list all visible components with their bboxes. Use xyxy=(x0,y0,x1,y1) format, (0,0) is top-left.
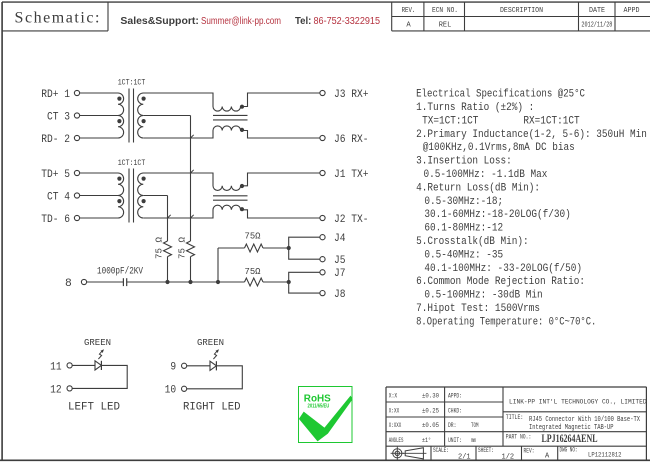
svg-text:9: 9 xyxy=(170,362,176,374)
svg-text:RD+ 1: RD+ 1 xyxy=(41,89,70,101)
svg-text:REV.: REV. xyxy=(402,7,416,15)
svg-text:2011/65/EU: 2011/65/EU xyxy=(308,403,330,409)
svg-text:11: 11 xyxy=(50,361,62,373)
svg-text:Tel:: Tel: xyxy=(295,16,311,27)
svg-text:J8: J8 xyxy=(334,289,346,301)
svg-text:75Ω: 75Ω xyxy=(245,266,261,277)
svg-text:RIGHT LED: RIGHT LED xyxy=(183,402,241,414)
svg-text:CT 4: CT 4 xyxy=(47,191,70,203)
svg-text:10: 10 xyxy=(165,385,177,397)
svg-text:7.Hipot Test: 1500Vrms: 7.Hipot Test: 1500Vrms xyxy=(416,303,540,315)
svg-text:mm: mm xyxy=(471,437,476,444)
svg-text:LINK-PP INT'L TECHNOLOGY CO.,: LINK-PP INT'L TECHNOLOGY CO., LIMITED xyxy=(509,399,647,406)
svg-text:1000pF/2KV: 1000pF/2KV xyxy=(97,265,144,277)
svg-text:12: 12 xyxy=(50,384,62,396)
svg-text:TITLE:: TITLE: xyxy=(506,414,524,421)
svg-text:5.Crosstalk(dB Min):: 5.Crosstalk(dB Min): xyxy=(416,236,529,248)
svg-text:60.1-80MHz:-12: 60.1-80MHz:-12 xyxy=(424,223,503,235)
svg-text:DR:: DR: xyxy=(448,422,456,429)
svg-text:3.Insertion Loss:: 3.Insertion Loss: xyxy=(416,156,512,168)
svg-text:4.Return Loss(dB Min):: 4.Return Loss(dB Min): xyxy=(416,182,540,194)
svg-text:SCALE:: SCALE: xyxy=(433,447,449,454)
svg-text:Schematic:: Schematic: xyxy=(15,10,100,27)
svg-text:2/1: 2/1 xyxy=(458,454,471,462)
svg-text:J3 RX+: J3 RX+ xyxy=(334,89,369,101)
svg-text:A: A xyxy=(406,22,411,30)
svg-text:J6 RX-: J6 RX- xyxy=(334,134,369,146)
svg-text:APPD: APPD xyxy=(624,7,640,15)
svg-text:DATE: DATE xyxy=(589,7,605,15)
svg-text:±0.05: ±0.05 xyxy=(422,422,439,429)
svg-text:DESCRIPTION: DESCRIPTION xyxy=(500,7,543,15)
svg-text:75 Ω: 75 Ω xyxy=(154,237,165,259)
svg-text:±0.25: ±0.25 xyxy=(422,407,439,414)
svg-text:6.Common Mode Rejection Ratio:: 6.Common Mode Rejection Ratio: xyxy=(416,276,585,288)
svg-text:J4: J4 xyxy=(334,233,346,245)
svg-text:X:XXX: X:XXX xyxy=(389,422,402,429)
svg-text:J7: J7 xyxy=(334,268,346,280)
svg-text:Summer@link-pp.com: Summer@link-pp.com xyxy=(201,16,281,27)
svg-text:Sales&Support:: Sales&Support: xyxy=(120,16,198,27)
svg-text:CHKD:: CHKD: xyxy=(448,407,462,414)
svg-text:J5: J5 xyxy=(334,255,346,267)
svg-text:ANGLES: ANGLES xyxy=(389,437,404,444)
svg-text:1CT:1CT: 1CT:1CT xyxy=(118,158,146,168)
svg-text:Electrical Specifications @25°: Electrical Specifications @25°C xyxy=(416,89,585,101)
svg-text:RJ45 Connector With 10/100 Bas: RJ45 Connector With 10/100 Base-TX xyxy=(529,416,640,424)
svg-text:1.Turns Ratio (±2%) :: 1.Turns Ratio (±2%) : xyxy=(416,102,534,114)
svg-text:1/2: 1/2 xyxy=(502,454,515,462)
svg-text:SHEET:: SHEET: xyxy=(478,447,494,454)
svg-text:1CT:1CT: 1CT:1CT xyxy=(118,77,146,87)
svg-text:ECN NO.: ECN NO. xyxy=(432,7,458,15)
svg-text:±1°: ±1° xyxy=(422,436,431,444)
svg-text:REV:: REV: xyxy=(524,448,535,455)
svg-text:75Ω: 75Ω xyxy=(245,231,261,242)
svg-text:±0.30: ±0.30 xyxy=(422,392,439,399)
svg-text:8.Operating Temperature: 0°C~7: 8.Operating Temperature: 0°C~70°C. xyxy=(416,316,596,328)
svg-text:30.1-60MHz:-18-20LOG(f/30): 30.1-60MHz:-18-20LOG(f/30) xyxy=(424,209,570,221)
svg-text:REL: REL xyxy=(439,22,452,30)
svg-text:LPJ16264AENL: LPJ16264AENL xyxy=(542,431,598,445)
svg-text:86-752-3322915: 86-752-3322915 xyxy=(314,16,381,27)
svg-text:X:XX: X:XX xyxy=(389,407,399,414)
svg-text:GREEN: GREEN xyxy=(197,338,224,348)
svg-text:TD+ 5: TD+ 5 xyxy=(41,169,70,181)
svg-text:2.Primary Inductance(1-2, 5-6): 2.Primary Inductance(1-2, 5-6): 350uH Mi… xyxy=(416,129,647,141)
svg-text:@100KHz,0.1Vrms,8mA DC bias: @100KHz,0.1Vrms,8mA DC bias xyxy=(423,142,575,154)
svg-text:UNIT:: UNIT: xyxy=(448,437,462,444)
svg-text:DWG NO:: DWG NO: xyxy=(560,447,578,454)
svg-text:J1 TX+: J1 TX+ xyxy=(334,169,369,181)
svg-text:0.5-100MHz: -1.1dB Max: 0.5-100MHz: -1.1dB Max xyxy=(424,169,548,181)
svg-text:APPD:: APPD: xyxy=(448,392,462,399)
svg-text:TD- 6: TD- 6 xyxy=(41,214,70,226)
svg-text:0.5-30MHz:-18;: 0.5-30MHz:-18; xyxy=(424,196,503,208)
svg-text:LP12112812: LP12112812 xyxy=(588,452,622,460)
svg-text:GREEN: GREEN xyxy=(84,338,111,348)
svg-text:X:X: X:X xyxy=(389,392,397,399)
svg-text:LEFT LED: LEFT LED xyxy=(68,402,120,414)
svg-text:8: 8 xyxy=(65,278,72,290)
svg-text:0.5-40MHz: -35: 0.5-40MHz: -35 xyxy=(424,249,503,261)
svg-text:TX=1CT:1CT RX=1CT:1CT: TX=1CT:1CT RX=1CT:1CT xyxy=(422,115,580,127)
svg-text:2012/11/28: 2012/11/28 xyxy=(581,22,612,30)
svg-text:CT 3: CT 3 xyxy=(47,111,70,123)
svg-text:40.1-100MHz: -33-20LOG(f/50): 40.1-100MHz: -33-20LOG(f/50) xyxy=(424,263,582,275)
svg-text:75 Ω: 75 Ω xyxy=(177,237,188,259)
svg-text:A: A xyxy=(545,452,550,460)
svg-text:TOM: TOM xyxy=(471,422,479,429)
svg-text:PART NO.:: PART NO.: xyxy=(506,433,532,440)
svg-text:J2 TX-: J2 TX- xyxy=(334,214,369,226)
svg-text:0.5-100MHz: -30dB Min: 0.5-100MHz: -30dB Min xyxy=(424,290,542,302)
svg-text:RD- 2: RD- 2 xyxy=(41,134,70,146)
